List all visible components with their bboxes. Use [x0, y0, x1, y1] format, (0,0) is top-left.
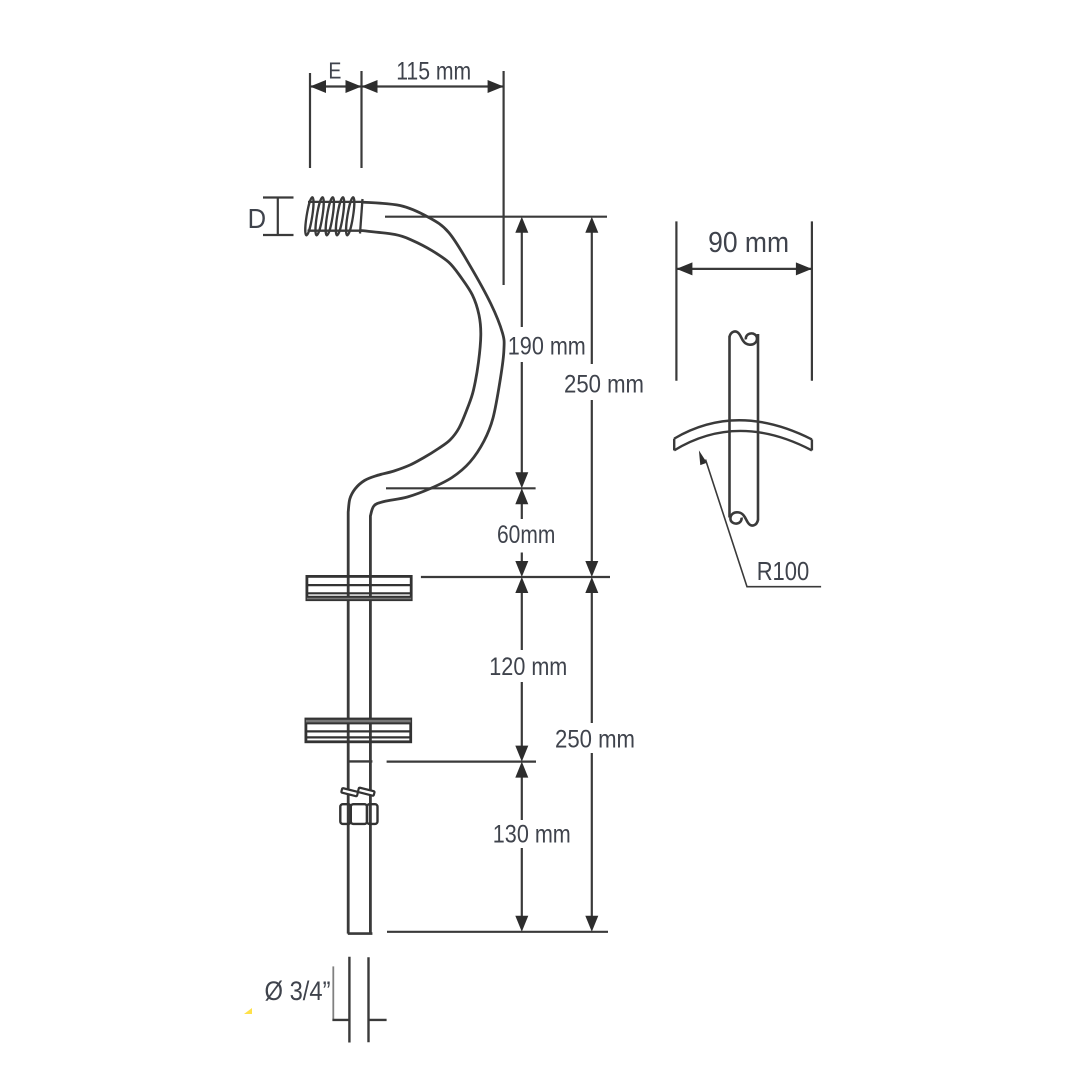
extension line between E and 115 [360, 71, 362, 168]
diameter bracket tick [332, 1019, 350, 1021]
diameter bracket vertical [332, 966, 334, 1019]
stub pipe left line [348, 957, 350, 1043]
right tick [369, 1019, 387, 1021]
break mark left [341, 788, 358, 796]
nut right facet [367, 804, 378, 824]
svg-text:250 mm: 250 mm [555, 726, 635, 754]
svg-text:90 mm: 90 mm [708, 227, 789, 259]
nut left facet [340, 804, 351, 824]
pipe curve inner edge [348, 231, 481, 934]
R100 leader arrow [699, 450, 707, 465]
mast bottom break squiggle [730, 512, 758, 525]
svg-text:D: D [248, 203, 267, 234]
reference ground line [387, 931, 608, 933]
arrowhead E right [346, 80, 362, 93]
yellow speck artifact [244, 1008, 252, 1014]
collar 1 [307, 576, 411, 599]
dimension line E [310, 85, 362, 87]
svg-text:250 mm: 250 mm [564, 371, 644, 399]
reference line at first collar [421, 576, 610, 578]
reference line bottom of S-bend [386, 487, 536, 489]
middle dimension column x=521.8 [521, 232, 523, 917]
right dimension column x=591.8 [591, 232, 593, 917]
arrowhead 90 left [676, 262, 692, 275]
D dimension symbol bottom cap [263, 234, 294, 236]
extension line left 90mm [675, 221, 677, 380]
arrowhead 115 right [488, 80, 504, 93]
wall band [674, 420, 812, 450]
extension line right 90mm [811, 221, 813, 380]
BOTTOM DETAIL [332, 957, 386, 1043]
svg-text:60mm: 60mm [497, 521, 555, 549]
dimension line 90mm [676, 268, 812, 270]
RIGHT SIDE DRAWING [676, 221, 812, 380]
svg-text:R100: R100 [757, 556, 810, 586]
collar 2 [306, 719, 411, 742]
svg-text:120 mm: 120 mm [489, 653, 567, 681]
stub pipe right line [367, 957, 369, 1042]
pipe curve outer edge [361, 202, 504, 934]
thread runout line [360, 199, 363, 234]
extension line right of 115 [503, 71, 505, 285]
reference line at joint [387, 760, 536, 762]
D dimension symbol top cap [263, 196, 294, 198]
svg-text:130 mm: 130 mm [493, 821, 571, 849]
extension line left of E [309, 73, 311, 168]
svg-text:E: E [328, 58, 341, 84]
svg-text:190 mm: 190 mm [508, 333, 586, 361]
arrowhead 90 right [796, 262, 812, 275]
arrowhead E left [310, 80, 326, 93]
D dimension symbol vertical [277, 198, 279, 236]
arrowheads middle column [515, 217, 528, 233]
svg-text:115 mm: 115 mm [396, 57, 471, 85]
pipe joint line below second collar [348, 760, 373, 762]
break mark right [358, 788, 375, 796]
mast pipe verticals [729, 331, 758, 525]
pipe bottom cap [348, 932, 373, 935]
arrowhead 115 left [362, 80, 378, 93]
threaded end coil [304, 197, 363, 236]
reference line top of hook [385, 216, 607, 218]
nut middle facet [351, 804, 367, 824]
R100 leader line [706, 460, 822, 587]
svg-text:Ø 3/4”: Ø 3/4” [265, 976, 331, 1006]
dimension line 115 mm [362, 85, 504, 87]
mast top break squiggle [729, 331, 757, 344]
arrowheads right column [585, 217, 598, 233]
